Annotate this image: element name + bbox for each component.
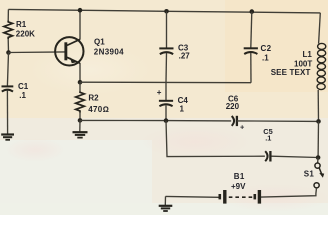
- svg-text:R1: R1: [16, 20, 27, 29]
- capacitor C6: [232, 116, 234, 126]
- wire switch to battery: [261, 188, 317, 197]
- wire C2 lower to bus corner: [250, 53, 252, 83]
- inductor L1: [317, 43, 326, 89]
- svg-text:C2: C2: [261, 44, 272, 53]
- node right rail C5: [316, 155, 321, 160]
- svg-text:1: 1: [180, 105, 185, 114]
- svg-text:.1: .1: [19, 91, 26, 100]
- node C4 bottom: [164, 118, 169, 123]
- capacitor C2: [244, 47, 258, 49]
- svg-text:2N3904: 2N3904: [94, 48, 124, 57]
- node collector top: [78, 8, 83, 13]
- wire base: [9, 51, 66, 54]
- capacitor C5: [265, 151, 267, 161]
- svg-text:.27: .27: [179, 52, 191, 61]
- wire C2 branch upper: [251, 12, 252, 48]
- wire R2 node to ground: [79, 120, 81, 131]
- wire C1 to ground: [6, 91, 8, 135]
- node base junction: [6, 50, 11, 55]
- capacitor C3: [159, 47, 173, 49]
- wire left rail upper: [7, 9, 9, 21]
- svg-text:R2: R2: [88, 94, 99, 103]
- wire bus to C4: [165, 82, 167, 100]
- wire R1 to base node: [7, 39, 9, 52]
- node top rail C3: [164, 9, 169, 14]
- ground (under R2): [73, 132, 88, 137]
- svg-text:220K: 220K: [16, 30, 35, 39]
- svg-text:.1: .1: [262, 54, 269, 63]
- node right rail bus: [316, 119, 321, 124]
- svg-text:220: 220: [226, 102, 240, 111]
- svg-text:+9V: +9V: [231, 182, 246, 191]
- wire C5 to right rail: [272, 156, 319, 157]
- resistor R2: [79, 82, 81, 91]
- wire C3 to bus: [165, 53, 168, 82]
- battery B1: [220, 190, 260, 204]
- svg-text:C1: C1: [18, 82, 29, 91]
- wire ground stem: [164, 196, 166, 205]
- transistor Q1: [55, 37, 83, 65]
- wire right rail lower: [317, 121, 319, 157]
- wire C6 to right rail: [237, 120, 319, 123]
- svg-text:Q1: Q1: [94, 37, 105, 46]
- svg-text:+: +: [157, 88, 162, 97]
- switch S1: [314, 163, 322, 188]
- capacitor C1: [2, 85, 14, 87]
- svg-text:S1: S1: [304, 170, 315, 179]
- ground (battery): [159, 206, 173, 211]
- wire bottom bus: [80, 119, 231, 122]
- wire right rail mid: [317, 90, 319, 121]
- svg-text:SEE TEXT: SEE TEXT: [271, 68, 311, 77]
- wire C3 branch upper: [166, 11, 168, 48]
- wire battery to ground: [166, 195, 219, 198]
- svg-text:470Ω: 470Ω: [88, 105, 109, 114]
- wire emitter: [79, 63, 81, 82]
- svg-text:B1: B1: [234, 172, 245, 181]
- node top rail C2: [250, 9, 255, 14]
- wire emitter bus: [80, 81, 251, 84]
- wire right rail top: [319, 13, 321, 44]
- wire top rail: [8, 9, 320, 13]
- wire collector: [79, 10, 81, 39]
- resistor R1: [4, 21, 13, 40]
- svg-text:L1: L1: [303, 50, 313, 59]
- svg-text:+: +: [240, 122, 245, 131]
- node R2 bottom: [78, 118, 83, 123]
- ground (left rail): [1, 135, 14, 140]
- svg-text:.1: .1: [265, 134, 271, 143]
- node emitter junction: [78, 80, 83, 85]
- wire base node to C1: [7, 53, 8, 87]
- wire drop to C5 line: [166, 121, 265, 157]
- wire to switch: [317, 158, 320, 163]
